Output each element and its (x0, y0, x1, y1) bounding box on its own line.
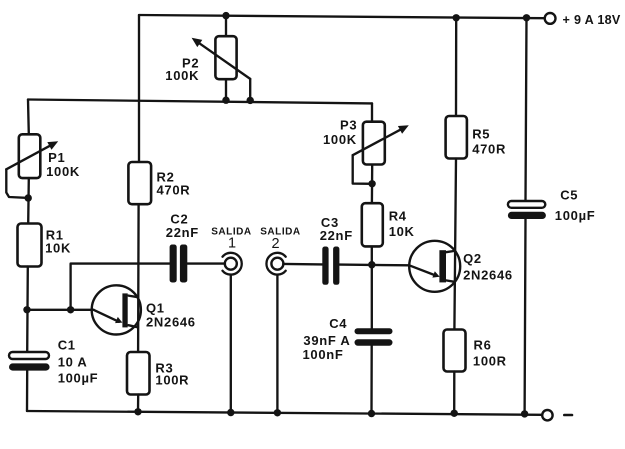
svg-text:2: 2 (272, 236, 280, 252)
wire SALIDA 2 to C3 (283, 263, 322, 266)
wire SALIDA 2 down (276, 275, 278, 413)
wire C5 bottom to rail (523, 219, 526, 414)
svg-text:10K: 10K (45, 241, 71, 256)
svg-text:2N2646: 2N2646 (146, 315, 196, 330)
terminal - supply (542, 410, 552, 420)
node bottom rail / SALIDA 1 (227, 409, 234, 416)
svg-text:100K: 100K (46, 164, 80, 179)
svg-text:100R: 100R (155, 373, 189, 388)
svg-text:100µF: 100µF (555, 208, 596, 223)
node second rail / P2 wiper (247, 97, 254, 104)
wire C2 branch riser (71, 264, 170, 310)
transistor Q2 (409, 241, 460, 292)
svg-text:22nF: 22nF (320, 228, 353, 243)
resistor R5 (446, 116, 467, 159)
svg-text:10K: 10K (389, 224, 415, 239)
node P1 wiper junction (25, 194, 32, 201)
svg-text:C4: C4 (329, 316, 347, 331)
node bottom rail / C5 (521, 410, 528, 417)
svg-text:22nF: 22nF (166, 225, 199, 240)
wire R5 bottom through Q2 to R6 (454, 159, 456, 330)
wire top supply rail (139, 15, 545, 18)
capacitor C5 bottom plate (508, 212, 546, 219)
node bottom rail / R6 (451, 410, 458, 417)
terminal + supply (545, 13, 556, 24)
svg-text:100nF: 100nF (303, 347, 344, 362)
wire R2 bottom to Q1/R3 (137, 204, 140, 352)
wire SALIDA 1 down (230, 275, 232, 413)
svg-text:R5: R5 (472, 126, 490, 141)
wire P3 bottom to R4 (371, 165, 374, 204)
capacitor C1 bottom plate (9, 363, 50, 370)
svg-text:Q2: Q2 (463, 251, 482, 266)
resistor R4 (362, 203, 383, 246)
svg-text:470R: 470R (472, 142, 506, 157)
wire P1 bottom to R1 (27, 178, 30, 223)
node Q2 emitter / R4-C4 (368, 261, 375, 268)
svg-text:Q1: Q1 (146, 300, 165, 315)
capacitor C2 (170, 245, 177, 283)
node top rail / C5 (523, 14, 530, 21)
node Q1 emitter / C2 branch (67, 306, 74, 313)
resistor R2 (128, 162, 151, 204)
resistor R6 (444, 330, 466, 372)
svg-text:100K: 100K (323, 132, 357, 147)
P1 wiper arrow (6, 144, 53, 170)
resistor R1 (18, 224, 42, 267)
wire P2 top (225, 16, 227, 37)
svg-text:100K: 100K (165, 68, 199, 83)
wire C2 to SALIDA 1 (187, 262, 225, 264)
terminal SALIDA 1 (223, 253, 242, 275)
terminal SALIDA 2 (266, 253, 285, 275)
node top rail / R5 (453, 14, 460, 21)
capacitor C5 top plate (508, 201, 545, 208)
svg-text:39nF A: 39nF A (303, 333, 350, 348)
node Q1 emitter / R1-C1 (23, 306, 30, 313)
wire R4 bottom to node (371, 246, 373, 264)
capacitor C3 (322, 247, 328, 285)
svg-text:100µF: 100µF (58, 370, 99, 385)
wire node to C4 (371, 265, 373, 329)
wire top-left vertical to R2 (138, 15, 140, 162)
node bottom rail / C4 (368, 410, 375, 417)
wire bottom rail (27, 411, 542, 415)
minus sign (564, 414, 572, 417)
svg-text:10 A: 10 A (58, 355, 88, 370)
wire second rail right corner down to P3 (371, 103, 373, 121)
svg-text:+ 9 A 18V: + 9 A 18V (563, 13, 621, 27)
wire R6 bottom to rail (453, 372, 455, 414)
wire C3 to Q2 (339, 263, 409, 266)
capacitor C1 top plate (9, 352, 49, 359)
svg-text:C1: C1 (58, 338, 76, 353)
potentiometer P1 (19, 134, 41, 178)
node bottom rail / SALIDA 2 (274, 409, 281, 416)
svg-text:P1: P1 (48, 150, 65, 165)
svg-text:P3: P3 (340, 117, 357, 132)
potentiometer P2 (215, 36, 236, 79)
svg-text:2N2646: 2N2646 (463, 268, 513, 283)
resistor R3 (127, 352, 150, 395)
wire P3 wiper bracket (353, 155, 372, 184)
node second rail / P2 bottom (222, 97, 229, 104)
wire second rail (28, 100, 372, 104)
wire P2 bottom (225, 79, 227, 100)
svg-text:1: 1 (228, 235, 236, 251)
wire R3 bottom to rail (137, 395, 140, 412)
P2 wiper arrow (199, 43, 251, 79)
wire C4 to bottom rail (370, 345, 373, 413)
svg-text:C5: C5 (560, 187, 578, 202)
node top rail / P2 (222, 12, 229, 19)
wire R1 bottom to C1 (26, 267, 29, 353)
svg-text:470R: 470R (157, 183, 191, 198)
svg-text:R6: R6 (474, 338, 492, 353)
capacitor C4 top plate (355, 328, 393, 334)
potentiometer P3 (363, 122, 385, 165)
P3 wiper arrow (353, 129, 402, 155)
transistor Q1 (92, 285, 141, 334)
wire P1 wiper bracket (6, 169, 28, 198)
svg-text:R4: R4 (389, 209, 407, 224)
svg-text:SALIDA: SALIDA (260, 226, 301, 237)
wire Q1 emitter row (27, 309, 94, 311)
wire C5 top (526, 18, 527, 201)
wire R5 top (455, 18, 458, 116)
node P3 wiper junction (368, 180, 375, 187)
wire second rail left corner down to P1 (27, 100, 30, 135)
wire P2 wiper drop (249, 79, 251, 101)
node bottom rail / R3 (134, 408, 141, 415)
capacitor C4 bottom plate (355, 339, 393, 345)
svg-text:100R: 100R (473, 354, 507, 369)
wire C1 bottom drop (26, 371, 29, 411)
